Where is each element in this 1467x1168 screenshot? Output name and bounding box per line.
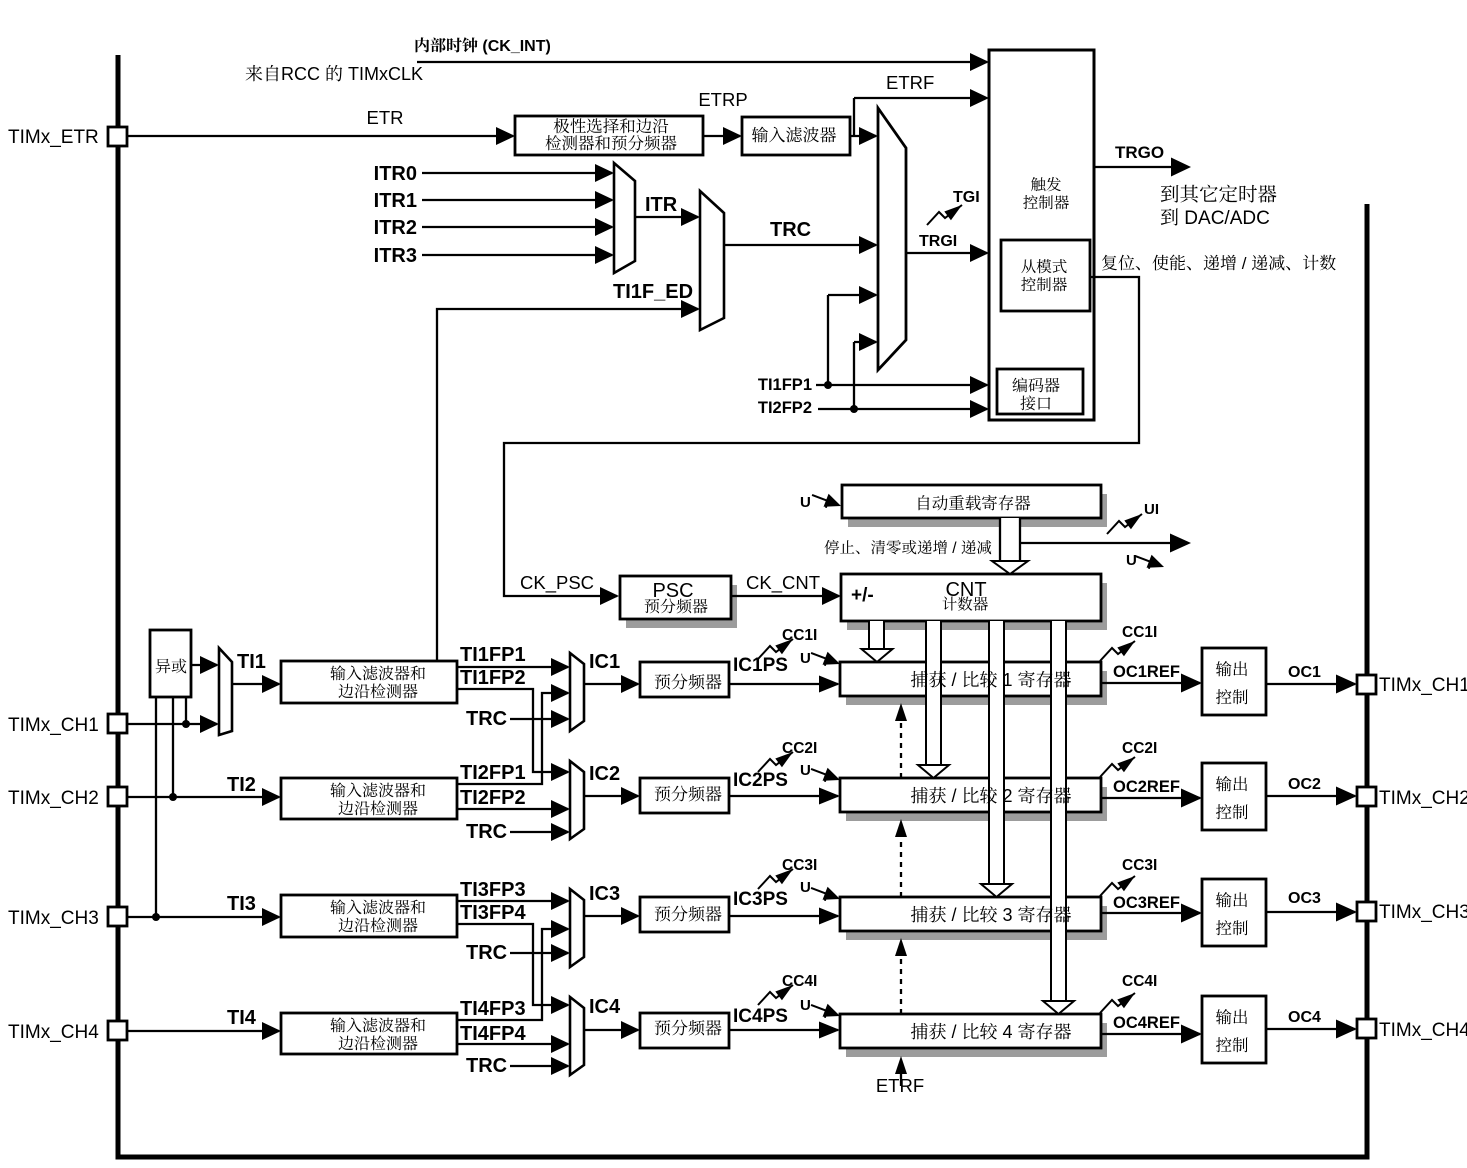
wire TRC ch2 <box>510 823 570 841</box>
text capture/compare register 4 <box>911 1022 1071 1042</box>
wire TI3FP4 down <box>457 924 570 1014</box>
wire CK_CNT <box>731 587 841 605</box>
label CC2I left <box>782 740 817 757</box>
label TGI <box>953 189 980 206</box>
mux IC3 <box>570 889 584 967</box>
label TIMx_ETR <box>8 127 99 148</box>
event CC2I right <box>1100 753 1138 777</box>
dashed ETRF to capture/compare 3 <box>895 938 907 1014</box>
label IC2 <box>589 763 620 785</box>
svg-text:OC4: OC4 <box>1288 1009 1321 1026</box>
wire TRGO <box>1094 158 1191 177</box>
output control box ch1 <box>1202 648 1266 715</box>
label TI1FP1 <box>460 644 526 666</box>
hollow arrow CNT to capture/compare 4 <box>1043 621 1074 1014</box>
text input filter ch2 <box>330 782 425 815</box>
capture/compare register 4 box <box>840 1014 1101 1048</box>
svg-text:U: U <box>1126 552 1137 569</box>
label CC3I left <box>782 857 817 874</box>
svg-text:1: 1 <box>1003 670 1013 690</box>
svg-text:IC3PS: IC3PS <box>733 889 788 910</box>
svg-text:TRGI: TRGI <box>919 233 957 250</box>
svg-text:TI1FP2: TI1FP2 <box>460 667 526 689</box>
wire ETRF bottom input <box>895 1056 907 1086</box>
svg-text:TIMxCLK: TIMxCLK <box>348 64 423 84</box>
label TI2 <box>227 774 256 796</box>
bottom border line <box>116 1155 1370 1160</box>
event CC1I left <box>758 635 796 659</box>
text reset enable updown count <box>1102 254 1336 273</box>
svg-text:U: U <box>800 997 811 1014</box>
wire TI1FP1 <box>457 658 570 676</box>
output control box ch3 <box>1202 879 1266 946</box>
label CC3I right <box>1122 857 1157 874</box>
label U capture 1 <box>800 650 811 667</box>
shadow auto-reload <box>848 494 1107 527</box>
hollow arrow reload to CNT <box>992 518 1028 574</box>
text to DAC ADC <box>1161 208 1270 229</box>
svg-text:/: / <box>952 786 957 806</box>
label TRGI <box>919 233 957 250</box>
wire OC1 <box>1266 675 1357 694</box>
mux trigger input <box>878 108 906 370</box>
wire OC4 <box>1266 1020 1357 1039</box>
svg-text:IC4: IC4 <box>589 996 621 1018</box>
pin TIMx_CH3 left <box>108 907 127 926</box>
svg-text:PSC: PSC <box>652 580 693 602</box>
event CC3I right <box>1100 872 1138 896</box>
svg-text:TIMx_CH2: TIMx_CH2 <box>1379 788 1467 809</box>
svg-text:/: / <box>952 670 957 690</box>
wire ETR <box>127 127 515 145</box>
svg-text:ETRF: ETRF <box>886 72 934 93</box>
text output control ch3 <box>1216 892 1248 935</box>
text CNT <box>942 579 987 611</box>
label internal clock CK_INT <box>416 37 551 55</box>
event CC3I left <box>758 865 796 889</box>
input filter edge detector box ch3 <box>281 895 457 937</box>
output control box ch4 <box>1202 996 1266 1063</box>
label OC3 <box>1288 890 1321 907</box>
wire TI2FP1 up <box>457 684 570 784</box>
label OC2 <box>1288 776 1321 793</box>
svg-text:CC3I: CC3I <box>1122 857 1157 874</box>
label OC4 <box>1288 1009 1321 1026</box>
label CC1I left <box>782 627 817 644</box>
label IC1PS <box>733 655 788 676</box>
label ITR2 <box>374 217 417 239</box>
wire OC3REF <box>1101 904 1202 923</box>
wire CK_INT <box>417 53 989 71</box>
label TIMx_CH4 right <box>1379 1020 1467 1041</box>
wire TI3FP3 <box>457 892 570 910</box>
label CC4I right <box>1122 973 1157 990</box>
svg-text:TI2FP1: TI2FP1 <box>460 762 526 784</box>
label TI4FP4 <box>460 1023 526 1045</box>
dashed ETRF to capture/compare 2 <box>895 819 907 897</box>
input filter box <box>742 117 850 155</box>
text prescaler ch3 <box>655 906 722 922</box>
label CC1I right <box>1122 624 1157 641</box>
label TIMx_CH2 right <box>1379 788 1467 809</box>
wire OC1REF <box>1101 674 1202 693</box>
label UI <box>1144 501 1159 518</box>
svg-text:/: / <box>1242 254 1247 273</box>
svg-text:IC2PS: IC2PS <box>733 770 788 791</box>
wire TI4FP4 <box>457 1035 570 1053</box>
wire ITR2 <box>422 218 614 236</box>
wire XOR to mux <box>191 656 219 674</box>
wire TI1F_ED <box>437 300 700 661</box>
svg-text:ITR: ITR <box>645 194 678 216</box>
wire OC2REF <box>1101 789 1202 808</box>
label ETR <box>367 107 404 128</box>
label TIMxCLK from RCC <box>246 64 423 84</box>
text capture/compare register 2 <box>911 786 1071 806</box>
svg-text:2: 2 <box>1003 786 1013 806</box>
wire ITR0 <box>422 164 614 182</box>
wire ETRP <box>703 127 742 145</box>
svg-text:TI4FP3: TI4FP3 <box>460 998 526 1020</box>
prescaler box ch2 <box>640 778 729 813</box>
text trigger controller <box>1023 177 1069 209</box>
mux IC1 <box>570 653 584 731</box>
label OC4REF <box>1113 1014 1180 1032</box>
label CC2I right <box>1122 740 1157 757</box>
label TI1FP1 encoder <box>758 376 812 394</box>
svg-text:TI3: TI3 <box>227 893 256 915</box>
mux IC2 <box>570 761 584 839</box>
wire IC1PS <box>729 676 840 693</box>
junction TI2FP2 <box>850 405 858 413</box>
hollow arrow CNT to capture/compare 1 <box>862 621 893 662</box>
auto-reload register box <box>842 485 1101 518</box>
svg-text:TRGO: TRGO <box>1115 143 1164 162</box>
wire IC4 <box>584 1021 640 1039</box>
label TI1F_ED <box>613 281 693 303</box>
text input filter ch4 <box>330 1017 425 1050</box>
text output control ch1 <box>1216 661 1248 704</box>
svg-text:ITR1: ITR1 <box>374 190 417 212</box>
label TI2FP1 <box>460 762 526 784</box>
PSC box <box>620 576 731 619</box>
event U reload <box>810 488 844 512</box>
label U capture 3 <box>800 879 811 896</box>
shadow capture/compare 2 <box>846 787 1107 821</box>
svg-text:IC1: IC1 <box>589 651 620 673</box>
encoder interface box <box>997 369 1083 414</box>
event CC1I right <box>1100 637 1138 661</box>
dashed ETRF to capture/compare 1 <box>895 703 907 778</box>
wire XOR taps <box>156 697 186 917</box>
text input filter ch3 <box>330 899 425 932</box>
text prescaler ch2 <box>655 786 722 802</box>
polarity selection box <box>515 116 703 155</box>
svg-text:TI3FP3: TI3FP3 <box>460 879 526 901</box>
label TI1FP2 <box>460 667 526 689</box>
text polarity selection <box>546 118 677 150</box>
svg-text:CC3I: CC3I <box>782 857 817 874</box>
label TI3 <box>227 893 256 915</box>
label TIMx_CH3 left <box>8 908 99 929</box>
wire IC2PS <box>729 788 840 805</box>
shadow PSC <box>626 585 737 628</box>
svg-text:TI2FP2: TI2FP2 <box>758 399 812 417</box>
label CK_CNT <box>746 572 820 594</box>
label TIMx_CH1 right <box>1379 675 1467 696</box>
wire TI1FP2 down <box>457 689 570 781</box>
wire TIMx_CH4 input <box>127 1022 281 1040</box>
svg-text:OC1: OC1 <box>1288 664 1321 681</box>
svg-text:CC1I: CC1I <box>1122 624 1157 641</box>
event U capture 3 <box>809 881 843 905</box>
text XOR <box>156 659 187 674</box>
left border line <box>116 55 121 1157</box>
label TRC <box>770 219 811 241</box>
text input filter <box>752 127 836 143</box>
label CK_PSC <box>520 572 594 594</box>
XOR box <box>150 630 191 697</box>
svg-text:TIMx_ETR: TIMx_ETR <box>8 127 99 148</box>
label TIMx_CH3 right <box>1379 902 1467 923</box>
event UI <box>1107 510 1145 534</box>
wire IC1 <box>584 675 640 693</box>
label U capture 4 <box>800 997 811 1014</box>
svg-text:OC4REF: OC4REF <box>1113 1014 1180 1032</box>
label TI4FP3 <box>460 998 526 1020</box>
wire TI4FP3 up <box>457 920 570 1020</box>
event CC4I left <box>758 981 796 1005</box>
svg-text:TI2FP2: TI2FP2 <box>460 787 526 809</box>
label IC3 <box>589 883 620 905</box>
label OC1REF <box>1113 663 1180 681</box>
wire ITR <box>635 208 700 226</box>
svg-text:TI1FP1: TI1FP1 <box>758 376 812 394</box>
svg-text:TIMx_CH3: TIMx_CH3 <box>8 908 99 929</box>
event CC2I left <box>758 748 796 772</box>
svg-text:OC3: OC3 <box>1288 890 1321 907</box>
label TI3FP3 <box>460 879 526 901</box>
wire TI1FP1 to encoder <box>816 286 989 394</box>
slave mode controller box <box>1001 240 1090 311</box>
svg-text:TIMx_CH2: TIMx_CH2 <box>8 788 99 809</box>
text output control ch4 <box>1216 1009 1248 1052</box>
svg-text:U: U <box>800 650 811 667</box>
pin TIMx_CH1 right <box>1357 675 1376 694</box>
pin TIMx_CH3 right <box>1357 902 1376 921</box>
svg-text:4: 4 <box>1003 1022 1013 1042</box>
label TRGO <box>1115 143 1164 162</box>
prescaler box ch3 <box>640 897 729 932</box>
svg-text:RCC: RCC <box>281 64 320 84</box>
pin TIMx_CH4 right <box>1357 1019 1376 1038</box>
wire OC4REF <box>1101 1025 1202 1044</box>
label TI1 <box>237 651 266 673</box>
wire IC3PS <box>729 908 840 925</box>
svg-text:IC4PS: IC4PS <box>733 1006 788 1027</box>
svg-text:ITR3: ITR3 <box>374 245 417 267</box>
mux ITR <box>614 163 635 273</box>
hollow arrow CNT to capture/compare 3 <box>981 621 1012 897</box>
svg-text:UI: UI <box>1144 501 1159 518</box>
svg-text:OC2: OC2 <box>1288 776 1321 793</box>
wire TIMx_CH1 input <box>127 715 219 733</box>
wire OC2 <box>1266 787 1357 806</box>
CNT box <box>841 574 1101 621</box>
svg-text:IC3: IC3 <box>589 883 620 905</box>
svg-text:TRC: TRC <box>466 821 507 843</box>
text PSC <box>645 580 708 613</box>
svg-text:+/-: +/- <box>851 585 874 606</box>
svg-text:OC3REF: OC3REF <box>1113 894 1180 912</box>
label TIMx_CH2 left <box>8 788 99 809</box>
label TRC ch1 <box>466 708 507 730</box>
svg-text:TRC: TRC <box>770 219 811 241</box>
wire TRGI <box>906 244 989 262</box>
wire TIMx_CH3 input <box>127 908 281 926</box>
wire IC3 <box>584 907 640 925</box>
svg-text:TI2: TI2 <box>227 774 256 796</box>
text slave mode controller <box>1021 259 1067 291</box>
capture/compare register 1 box <box>840 662 1101 696</box>
svg-text:CK_PSC: CK_PSC <box>520 572 594 594</box>
svg-text:/: / <box>952 905 957 925</box>
svg-text:TIMx_CH4: TIMx_CH4 <box>1379 1020 1467 1041</box>
wire OC3 <box>1266 903 1357 922</box>
label TRC ch2 <box>466 821 507 843</box>
svg-text:TI1: TI1 <box>237 651 266 673</box>
svg-text:TIMx_CH1: TIMx_CH1 <box>8 715 99 736</box>
text encoder interface <box>1012 377 1059 410</box>
text input filter ch1 <box>330 665 425 698</box>
prescaler box ch4 <box>640 1013 729 1048</box>
wire filter to mux ETRF branch <box>850 89 989 145</box>
event TGI <box>927 201 965 225</box>
shadow capture/compare 1 <box>846 671 1107 705</box>
svg-text:ETR: ETR <box>367 107 404 128</box>
label ITR <box>645 194 678 216</box>
capture/compare register 2 box <box>840 778 1101 812</box>
event U update <box>1133 549 1167 573</box>
label plus minus <box>851 585 874 606</box>
svg-text:U: U <box>800 762 811 779</box>
mux IC4 <box>570 997 584 1075</box>
text auto-reload register <box>919 495 1031 511</box>
label ITR0 <box>374 163 417 185</box>
svg-text:TI3FP4: TI3FP4 <box>460 902 526 924</box>
svg-text:TIMx_CH3: TIMx_CH3 <box>1379 902 1467 923</box>
label ETRF bottom <box>876 1075 924 1096</box>
svg-text:OC2REF: OC2REF <box>1113 778 1180 796</box>
wire TRC ch3 <box>510 944 570 962</box>
svg-text:TRC: TRC <box>466 708 507 730</box>
svg-text:TGI: TGI <box>953 189 980 206</box>
svg-text:OC1REF: OC1REF <box>1113 663 1180 681</box>
event U capture 1 <box>809 646 843 670</box>
label ITR1 <box>374 190 417 212</box>
mux TRC select <box>700 191 724 330</box>
label U capture 2 <box>800 762 811 779</box>
svg-text:(CK_INT): (CK_INT) <box>482 38 550 55</box>
label TI2FP2 <box>460 787 526 809</box>
label OC3REF <box>1113 894 1180 912</box>
svg-text:CK_CNT: CK_CNT <box>746 572 820 594</box>
input filter edge detector box ch1 <box>281 661 457 703</box>
event U capture 4 <box>809 998 843 1022</box>
label ITR3 <box>374 245 417 267</box>
pin TIMx_CH2 left <box>108 787 127 806</box>
label IC2PS <box>733 770 788 791</box>
label TI3FP4 <box>460 902 526 924</box>
input filter edge detector box ch2 <box>281 778 457 819</box>
svg-text:U: U <box>800 494 811 511</box>
right border line <box>1365 204 1370 1157</box>
svg-text:ITR2: ITR2 <box>374 217 417 239</box>
wire TRC trigger <box>724 236 878 254</box>
trigger controller box <box>989 50 1094 420</box>
wire TRC ch1 <box>510 710 570 728</box>
svg-text:/: / <box>952 1022 957 1042</box>
label CC4I left <box>782 973 817 990</box>
label U reload <box>800 494 811 511</box>
text prescaler ch1 <box>655 674 722 690</box>
svg-text:TRC: TRC <box>466 1055 507 1077</box>
text capture/compare register 3 <box>911 905 1071 925</box>
pin TIMx_CH4 left <box>108 1021 127 1040</box>
shadow capture/compare 4 <box>846 1023 1107 1057</box>
svg-text:CC4I: CC4I <box>782 973 817 990</box>
junction CH2 xor tap <box>169 793 177 801</box>
wire ITR3 <box>422 246 614 264</box>
svg-text:CC1I: CC1I <box>782 627 817 644</box>
input filter edge detector box ch4 <box>281 1013 457 1054</box>
shadow capture/compare 3 <box>846 906 1107 940</box>
svg-text:TIMx_CH1: TIMx_CH1 <box>1379 675 1467 696</box>
svg-text:ITR0: ITR0 <box>374 163 417 185</box>
label TI4 <box>227 1007 257 1029</box>
wire TIMx_CH2 input <box>127 788 281 806</box>
wire IC2 <box>584 787 640 805</box>
svg-text:ETRP: ETRP <box>698 89 747 110</box>
label TI2FP2 encoder <box>758 399 812 417</box>
label TRC ch4 <box>466 1055 507 1077</box>
label U update <box>1126 552 1137 569</box>
svg-text:TI1FP1: TI1FP1 <box>460 644 526 666</box>
pin TIMx_ETR <box>108 127 127 146</box>
svg-text:CC2I: CC2I <box>1122 740 1157 757</box>
svg-text:CC4I: CC4I <box>1122 973 1157 990</box>
svg-text:IC2: IC2 <box>589 763 620 785</box>
label IC4 <box>589 996 621 1018</box>
junction CH1 xor tap <box>182 720 190 728</box>
wire TI2FP2 <box>457 800 570 818</box>
shadow CNT <box>847 583 1107 630</box>
svg-text:CC2I: CC2I <box>782 740 817 757</box>
svg-text:/: / <box>952 540 957 557</box>
junction CH3 xor tap <box>152 913 160 921</box>
svg-text:TI1F_ED: TI1F_ED <box>613 281 693 303</box>
mux XOR select <box>219 648 232 735</box>
svg-text:IC1PS: IC1PS <box>733 655 788 676</box>
svg-text:U: U <box>800 879 811 896</box>
wire TI1 <box>232 675 281 693</box>
prescaler box ch1 <box>640 662 729 697</box>
svg-text:ETRF: ETRF <box>876 1075 924 1096</box>
pin TIMx_CH2 right <box>1357 787 1376 806</box>
junction TI1FP1 <box>824 381 832 389</box>
label OC2REF <box>1113 778 1180 796</box>
svg-text:3: 3 <box>1003 905 1013 925</box>
